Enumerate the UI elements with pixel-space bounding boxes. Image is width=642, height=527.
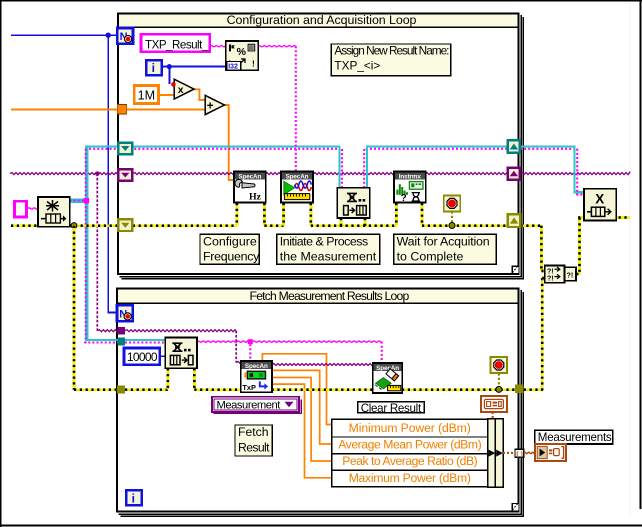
- wire: instr handle TxP to clear icon: [272, 364, 374, 366]
- tunnel: indexing output []: [515, 449, 524, 457]
- shift register: olive right (error): [508, 214, 520, 227]
- terminal: iteration i (config loop): [146, 60, 161, 75]
- constant: TXP result cluster type: [481, 396, 507, 412]
- svg-text:Measurements: Measurements: [538, 431, 612, 444]
- svg-text:Initiate & Process: Initiate & Process: [280, 234, 368, 248]
- svg-text:Assign New Result Name:: Assign New Result Name:: [334, 44, 449, 58]
- svg-text:the Measurement: the Measurement: [280, 249, 377, 263]
- node: red coercion dot on multiply: [171, 82, 176, 87]
- function: enqueue element (hourglass): [337, 188, 369, 218]
- wire: error inside fetch loop: [125, 388, 168, 391]
- wire: instr handle inside fetch loop to TxP: [125, 330, 236, 332]
- svg-text:Minimum Power (dBm): Minimum Power (dBm): [349, 421, 471, 435]
- svg-text:Wait for Acquition: Wait for Acquition: [397, 234, 490, 248]
- terminal: N loop count (fetch loop): [117, 305, 133, 321]
- indicator: Measurements terminal icon: [535, 444, 566, 461]
- constant: TXP_Result_ string: [141, 34, 210, 52]
- svg-text:[ ]: [ ]: [516, 451, 522, 458]
- wire: instr handle down to fetch loop: [96, 174, 98, 331]
- svg-text:10000: 10000: [127, 350, 158, 364]
- svg-text:%: %: [237, 46, 247, 58]
- wire: TxP fetch result 4: [272, 384, 333, 478]
- node: blue junction at (108,35): [106, 33, 111, 38]
- svg-text:TxP: TxP: [242, 383, 256, 392]
- label: Wait for Acquisition: [394, 234, 497, 264]
- wire: string name dotted paired below cyan: [85, 148, 340, 150]
- node: error junction circle near obtain queue: [71, 223, 77, 229]
- wire: orange numeric from left edge into loop tunnel: [11, 109, 117, 111]
- svg-text:Hz: Hz: [249, 192, 262, 203]
- svg-text:SpecAn: SpecAn: [238, 174, 261, 181]
- tunnel: orange numeric (config loop left): [117, 105, 126, 114]
- sub VI: SpecAn Configure Frequency (wrench/Hz): [234, 172, 266, 203]
- terminal: N loop count (config loop): [117, 28, 133, 44]
- svg-text:I32: I32: [228, 63, 238, 70]
- wire: string TXP_Result_ to format-into-string: [210, 46, 226, 47]
- wire: fetch loop error out up to merge errors: [524, 388, 543, 391]
- function: error small icon: [565, 267, 577, 281]
- wire: queue+string drop into enqueue icon: [339, 147, 341, 188]
- wire: cluster type to bundle: [492, 412, 494, 419]
- svg-text:?!: ?!: [547, 276, 554, 283]
- node: magenta junction at (250,341.6): [248, 339, 253, 344]
- svg-text:Configure: Configure: [203, 234, 257, 248]
- tunnel: olive error (fetch loop left): [117, 386, 125, 394]
- node: blue junction at (169,67): [167, 64, 172, 69]
- wire: result name from format down to measure icon: [258, 46, 296, 47]
- svg-text:1M: 1M: [138, 88, 156, 102]
- shift register: olive left (error): [118, 219, 132, 231]
- shift register: violet left (instr): [118, 169, 132, 180]
- wire: TxP fetch result 3: [272, 378, 333, 462]
- wire: instr handle across config loop: [133, 173, 508, 175]
- label: Fetch Result: [235, 425, 272, 456]
- indicator: Measurements label: [535, 430, 613, 444]
- svg-text:i: i: [132, 491, 135, 505]
- control: stop button terminal (fetch loop): [491, 357, 507, 373]
- wire: loop-count blue wire from left edge: [11, 34, 117, 36]
- tunnel: violet instr (fetch loop left): [117, 327, 124, 335]
- wire: error risers configure icon: [235, 203, 238, 226]
- svg-text:Fetch Measurement Results Loop: Fetch Measurement Results Loop: [250, 289, 410, 303]
- control: stop button terminal (config loop): [444, 195, 460, 211]
- wire: stop button boolean drop (fetch loop): [498, 373, 500, 387]
- wire: iteration i to format/multiply: [162, 66, 227, 68]
- wire: dequeue string out to junction: [197, 341, 248, 342]
- function: Format Into String: [226, 41, 258, 70]
- svg-text:Maximum Power (dBm): Maximum Power (dBm): [349, 471, 471, 485]
- label: Initiate and Process: [277, 234, 380, 264]
- svg-text:TXP_<i>: TXP_<i>: [334, 59, 380, 73]
- svg-text:Peak to Average Ratio (dB): Peak to Average Ratio (dB): [342, 454, 477, 468]
- svg-text:Average Mean Power (dBm): Average Mean Power (dBm): [338, 438, 481, 452]
- function: merge errors: [545, 266, 565, 283]
- svg-text:Result: Result: [238, 440, 270, 454]
- svg-text:X: X: [595, 192, 604, 207]
- wire: error between configure and initiate: [264, 224, 283, 227]
- function: add: [205, 95, 224, 114]
- wire: error initiate to instr-wait: [311, 224, 397, 227]
- wire: cluster array to Measurements indicator: [524, 452, 535, 453]
- shift register: teal left (queue): [118, 143, 132, 155]
- node: violet junction at (97,174): [95, 171, 99, 175]
- constant: Measurement ring: [212, 397, 302, 415]
- wire: stop button boolean drop (config loop): [451, 211, 453, 224]
- wire: queue+string to release-queue X icon: [573, 146, 575, 194]
- function: dequeue element: [165, 338, 197, 369]
- svg-text:?!: ?!: [547, 268, 554, 275]
- constant: 1M numeric: [134, 85, 158, 103]
- label: Configure Frequency: [200, 234, 259, 264]
- svg-text:SpecAn: SpecAn: [245, 363, 268, 370]
- svg-text:i: i: [152, 61, 155, 75]
- wire: obtain queue output combo (cyan with magenta core): [69, 198, 88, 202]
- svg-text:!: !: [252, 59, 255, 69]
- svg-text:Clear Result: Clear Result: [361, 402, 422, 415]
- wire: error from left edge along obtain queue: [11, 224, 237, 227]
- sub VI: Instr mx wait for acquisition: [394, 172, 426, 203]
- wire: 10000 to dequeue: [160, 355, 166, 357]
- wire: TxP fetch result 1 (top output to Minimum row): [262, 354, 332, 425]
- svg-text:Measurement: Measurement: [217, 399, 282, 411]
- constant: empty string (queue name): [14, 201, 26, 217]
- svg-text:?: ?: [401, 193, 407, 204]
- wire: error risers enqueue icon: [340, 218, 343, 226]
- wire: 1M to multiply: [159, 94, 175, 96]
- svg-text:SpecAn: SpecAn: [286, 174, 309, 181]
- wire: TxP fetch result 2: [272, 370, 333, 444]
- wire: bundle output cluster array: [503, 452, 515, 454]
- while loop: Fetch Measurement Results Loop: [116, 288, 524, 517]
- wire: queue refnum cyan across config loop: [85, 146, 340, 148]
- svg-text:x: x: [178, 84, 184, 96]
- tunnel: teal queue (fetch loop left): [117, 337, 125, 345]
- svg-text:Fetch: Fetch: [238, 425, 268, 439]
- function: release queue (X): [584, 189, 616, 221]
- sub VI: SpecAn clear result (eraser): [373, 363, 403, 393]
- wire: orange inside loop to add input: [127, 109, 206, 111]
- node: magenta junction at (86,200.6): [84, 198, 89, 203]
- svg-text:to Complete: to Complete: [397, 249, 464, 263]
- svg-text:+: +: [207, 101, 214, 113]
- wire: multiply out to add: [194, 89, 205, 100]
- wire: instr handle right of loop to edge: [520, 173, 630, 175]
- svg-text:Frequency: Frequency: [203, 249, 260, 263]
- constant: 10000 numeric: [124, 348, 160, 365]
- wire: string junction to clear-result icon: [253, 341, 382, 342]
- label: Clear Result: [358, 402, 425, 413]
- wire: add out down to SpecAn configure icon: [224, 105, 234, 180]
- sub VI: SpecAn Initiate and Read (play/waves): [281, 172, 313, 203]
- wire: string pink constant to obtain queue: [28, 208, 38, 209]
- wire: string junction down into TxP fetch icon: [249, 344, 251, 361]
- function: bundle by name columns: [488, 419, 496, 487]
- shift register: teal right (queue): [508, 140, 520, 153]
- tunnel: olive error (fetch loop right): [515, 385, 524, 394]
- svg-text:TXP_Result_: TXP_Result_: [145, 38, 209, 51]
- sub VI: SpecAn TxP fetch: [241, 361, 272, 392]
- svg-text:Instrmx: Instrmx: [399, 174, 422, 181]
- shift register: violet right (instr): [508, 168, 520, 180]
- svg-text:Configuration and Acquisition: Configuration and Acquisition Loop: [227, 13, 417, 27]
- wire: blue vertical to lower loop N: [107, 35, 109, 313]
- function: multiply: [174, 79, 194, 99]
- while loop: Configuration and Acquisition Loop: [117, 13, 524, 280]
- wire: queue+string into fetch loop tunnel: [85, 339, 118, 341]
- label: Assign New Result Name comment: [331, 44, 450, 76]
- svg-text:?!: ?!: [567, 273, 574, 280]
- wire: error down from junction to fetch loop: [73, 226, 76, 390]
- cluster element rows (bundle names): [332, 419, 488, 486]
- wire: release queue error out to right edge: [578, 216, 630, 219]
- wire: instr handle from left edge: [10, 173, 118, 175]
- wire: error instr-wait to right shift register: [422, 224, 508, 227]
- sub VI: Obtain Queue: [38, 197, 70, 227]
- wire: error out of config loop to merge errors: [521, 224, 542, 227]
- terminal: iteration i (fetch loop): [126, 490, 141, 505]
